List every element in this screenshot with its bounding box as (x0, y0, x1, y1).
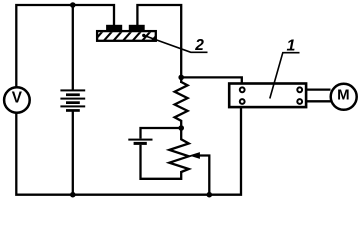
voltmeter PV1 (4, 87, 30, 113)
sensor 2: hatched body (93, 30, 161, 42)
sensor 2: left terminal block (106, 25, 122, 31)
relay terminal upper-right (297, 87, 302, 92)
svg-text:V: V (12, 90, 23, 107)
junction: node A (resistor top) (178, 75, 184, 81)
relay terminal lower-left (240, 99, 245, 104)
wire: battery top lead (72, 5, 74, 91)
junction: battery / bottom bus node (70, 192, 76, 198)
relay terminal lower-right (297, 99, 302, 104)
svg-text:M: M (337, 87, 350, 104)
relay block 1 (body) (229, 84, 306, 108)
junction: battery / top bus node (70, 2, 76, 8)
resistor R1 (175, 82, 188, 128)
svg-text:1: 1 (287, 38, 296, 55)
wire: node B left to bias cell (141, 128, 182, 139)
junction: node B (resistor bottom / potentiometer top) (178, 125, 184, 131)
wire: top bus left segment with left vertical down to voltmeter and drop to sensor left terminal (16, 5, 114, 88)
potentiometer R2 (169, 128, 189, 172)
leader line for label 1 (270, 53, 300, 99)
wire: relay to motor upper (306, 88, 331, 90)
wire: node A to relay block upper input (181, 77, 242, 85)
junction: wiper / bottom bus node (207, 192, 213, 198)
wire: sensor right lead + top bus right segment + long vertical to node A (137, 5, 181, 83)
svg-text:2: 2 (194, 37, 204, 54)
relay terminal upper-left (240, 87, 245, 92)
battery GB1 (three cells) (60, 89, 85, 111)
wire: bias cell bottom down and right to potentiometer bottom (141, 145, 182, 179)
wire: relay to motor lower (306, 100, 331, 102)
wire: voltmeter bottom lead + bottom bus + riser to relay block (16, 108, 241, 195)
motor M1 (331, 84, 357, 110)
potentiometer wiper arrow (189, 152, 209, 194)
leader line for label 2 (with dot on sensor) (142, 34, 207, 53)
sensor 2: right terminal block (129, 25, 145, 31)
wire: battery bottom lead (72, 111, 74, 195)
bias cell G1 (128, 139, 152, 145)
